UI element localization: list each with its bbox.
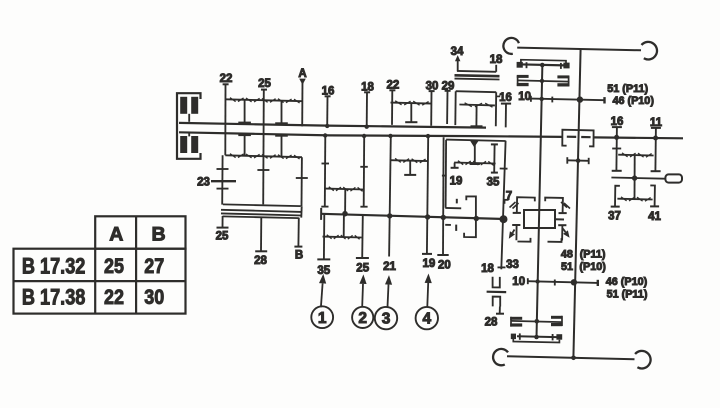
T-foot right leg G3b [491,172,498,174]
bottom CV right gear stripe 1 [551,316,562,319]
tick toward label 16c [497,95,501,97]
top CV bridge line [521,60,566,64]
T-foot bracket top-right [559,212,567,214]
gear mesh hatch F1 [329,187,334,191]
gear line output bottom [617,198,652,201]
gear 25 long vertical [262,90,265,205]
circled 1 [311,306,333,328]
svg-text:28: 28 [485,317,498,329]
output coupling housing [562,130,593,147]
B-shaft body lower line [221,213,302,215]
gear 11o vertical [654,128,657,171]
T-foot leg B [294,246,302,248]
top CV axle line [517,80,569,81]
T-foot inner leg [451,167,459,169]
gear leg T4 [409,161,411,175]
reverse idler upper U [493,277,500,288]
T-foot label 25 leg [356,257,369,259]
svg-text:25: 25 [356,262,369,274]
bracket G3 left leg [454,91,456,125]
junction 10line2-ringaxis [571,279,577,285]
svg-text:25: 25 [104,255,124,278]
svg-text:22: 22 [387,80,400,92]
junction bottom axle-axis [535,319,540,324]
leg to label 25 left [222,216,224,228]
top drive shaft right fork [642,42,658,60]
tick below 34 [457,58,459,71]
T-foot lower-right hook [650,205,659,207]
countershaft line [321,214,505,219]
gear 21 long vertical [389,136,391,256]
T-foot stub [496,313,504,315]
leader cap 22 [223,83,229,85]
junction axle-axis [540,79,544,83]
T-foot gear 19 vertical [422,253,432,255]
synchro sleeve upper bar [455,74,500,77]
svg-text:19: 19 [423,258,436,270]
B-shaft right end cap [300,206,302,217]
T-foot gear 16o [612,170,622,172]
gear ratio table [14,216,186,313]
bottom drive shaft right fork [635,351,651,369]
top drive shaft line [517,48,641,51]
10-line top [531,99,605,101]
bracket G3 top line [456,91,497,92]
hatch tr-1 [564,203,570,209]
junction 21-countershaft [387,213,392,218]
bottom CV left block edge [510,317,512,327]
arrow 1 [321,283,323,307]
T-foot of leg T1 [238,122,251,124]
gear 30 vertical [430,91,432,125]
leader cap 25 [261,89,267,91]
bracket 34-18 [457,70,496,73]
junction 20-countershaft [441,215,446,220]
svg-text:18: 18 [481,263,494,275]
gear leg T3 [410,103,412,122]
junction ringaxis-bottom shaft [571,356,576,361]
svg-text:41: 41 [648,211,661,223]
gear leg T1 bottom [244,135,246,156]
top CV bar [518,64,565,65]
svg-text:19: 19 [450,176,463,188]
T-foot center leg [470,163,480,165]
gear 16c vertical [505,104,507,128]
hatch tl-2 [513,203,519,209]
final drive pinion mesh dot [500,215,508,223]
bottom CV right gear stripe 2 [551,323,562,326]
svg-text:B: B [295,250,303,262]
input shaft lower line [179,132,562,137]
T-foot gear 11o [651,170,661,172]
svg-text:51: 51 [561,261,573,273]
input shaft upper line [179,123,486,128]
coupling inner dash left [567,136,576,138]
tick up to 18 [495,65,497,72]
tick at end of pinion leg [498,266,506,268]
clutch hub link upper [188,114,190,122]
node A vertical [301,79,303,126]
svg-text:27: 27 [144,255,164,278]
junction F1 left-shaft [323,133,327,137]
tick start 10-line bottom [527,278,529,284]
T-foot leg T5 [471,125,483,127]
differential axis vertical [537,64,543,338]
svg-text:20: 20 [438,259,451,271]
diff bracket top-right [545,198,563,213]
ring gear axis vertical [573,49,580,358]
synchro rail upper [445,207,461,209]
gear 22 vertical [224,85,226,156]
top CV right square [563,63,569,69]
svg-text:25: 25 [216,231,229,243]
T-cap bracket bottom-right [558,224,566,226]
junction 10line-ringaxis [577,96,583,102]
junction 10line-diffaxis [540,97,544,101]
T-cap of leg T2 bottom [275,135,288,137]
junction 18-shaft [365,125,369,129]
tick on F1 right [360,166,368,168]
bottom CV right tick [552,334,554,340]
svg-text:22: 22 [220,73,233,85]
tick upper on 23 vertical [217,168,229,170]
svg-text:10: 10 [518,91,531,103]
hub left leg down [445,140,448,208]
T-foot leg 25 left [217,227,229,229]
junction 16-shaft [325,124,329,128]
gear 16 vertical [326,97,328,127]
clutch plate lower-right [191,136,198,153]
svg-text:(P11): (P11) [580,248,606,260]
arrow 3 [388,285,389,307]
top CV right gear stripe 1 [557,75,569,78]
synchro dog triangle [471,140,478,146]
T-foot bracket top-left [513,212,521,214]
gear line F1 below [323,236,362,239]
bottom CV axle line [511,321,563,322]
bottom CV right square [556,334,562,340]
hub line below shaft [446,140,506,141]
center leg F1 below [343,214,345,237]
bottom CV right block edge [561,316,563,326]
tick below label 7 [505,200,509,204]
wedge under label A [300,79,305,83]
junction CV bar-axis [540,63,545,68]
leg to label B [297,218,299,247]
gear leg T5 [475,105,477,126]
jaw tooth upper [456,199,458,204]
countershaft left end cap [320,208,322,220]
gear mesh hatch F1 below [327,235,332,239]
circled 3 [375,307,397,329]
mid tick 10-line top [551,97,553,103]
hatch tr-2 [561,202,567,208]
output mid line [611,178,664,179]
svg-text:30: 30 [426,80,439,92]
synchro sleeve lower bar [455,78,500,81]
gear leg right down to B-shaft [301,157,303,206]
bearing right tick [588,158,590,164]
gear 16o vertical [615,127,618,170]
tick left of label 19 [442,175,447,177]
top CV left square [517,62,523,68]
gear leg T2 top [281,101,283,124]
T-cap of leg T1 bottom [238,134,251,136]
stub below reverse idler [499,307,501,314]
bottom CV bar [517,335,557,338]
leader cap 22b [389,89,395,91]
svg-text:46 (P10): 46 (P10) [613,95,655,107]
gear line F1 [325,188,364,191]
hatch tl-1 [510,202,516,208]
junction synchro-countershaft [474,216,479,221]
svg-text:23: 23 [197,177,210,189]
tick gear 16o [612,148,621,150]
gear 18 vertical [366,93,368,128]
10-line bottom [528,281,598,283]
gear line G2 top [391,103,432,104]
bracket G3 right leg [495,92,497,126]
leader cap 29 [445,90,451,92]
output lower-right hook [650,185,655,206]
clutch housing bracket [177,93,201,159]
svg-text:(P10): (P10) [579,261,606,273]
top CV right gear stripe 2 [557,83,569,86]
svg-text:4: 4 [422,311,431,328]
gear 19 long vertical [427,136,428,254]
junction 16o-shaft [614,135,619,140]
clutch plate lower-left [180,136,187,153]
junction 11o-shaft [653,136,658,141]
svg-text:37: 37 [608,211,621,223]
clutch plate upper-left [180,97,187,114]
speedometer drive box [665,174,682,182]
diff bracket bottom-right leg [561,225,563,240]
output center leg [634,155,636,199]
svg-text:16: 16 [499,92,512,104]
bottom drive shaft left fork [493,349,508,365]
T-foot leg 28 left [255,250,267,252]
B-shaft lower bracket line [223,216,299,218]
svg-text:35: 35 [487,177,500,189]
top CV right tick [560,63,562,69]
gear line output top [618,154,653,157]
svg-text:48: 48 [561,248,573,260]
bottom CV left square [511,334,516,340]
jaw tooth lower [455,225,457,231]
arrowhead up to 34 [456,57,460,61]
gear line G3 bottom [454,163,496,164]
tick on F1 left [322,163,330,165]
gear mesh hatch G2 bottom [395,158,401,162]
svg-text:18: 18 [361,82,374,94]
bottom CV left gear stripe 2 [510,323,522,326]
gear leg T2 bottom [281,135,283,156]
synchro big C jaw [464,196,476,237]
diff bracket bottom-left foot [518,238,531,242]
svg-text:B 17.32: B 17.32 [22,254,86,279]
mid tick 10-line bottom [554,280,556,286]
junction bearing-ringaxis [576,158,581,163]
tick start 10-line top [530,96,532,102]
svg-text:A: A [298,68,306,80]
T-foot label 35 leg [317,258,330,260]
clutch plate upper-right [191,97,198,114]
gear 35 upper vertical [324,136,327,207]
bottom drive shaft line [507,356,635,359]
top CV left gear stripe 2 [517,83,529,86]
svg-text:10: 10 [512,276,525,288]
center leg G3b [474,143,476,164]
circled 4 [416,307,438,329]
clutch hub link lower [188,133,190,136]
synchro rail lower [445,224,451,226]
svg-text:1: 1 [318,310,327,327]
gear mesh hatch G2 top [395,101,401,105]
gear 23 vertical [221,155,223,204]
svg-text:25: 25 [258,78,271,90]
gear line G3 [459,104,495,107]
23 shaft dash [211,180,236,182]
gear mesh hatch G1 top [230,98,236,102]
T-cap gear 16o [612,126,622,128]
junction 19-shaft [426,134,430,138]
T-foot lower-left hook [611,206,620,208]
end tick 10-line top [603,97,605,103]
bearing bar below coupling [567,159,588,162]
gear mesh hatch G3 bottom [458,161,463,165]
svg-text:35: 35 [317,265,330,277]
inner left leg G3b [454,163,456,168]
gear 20 vertical [442,137,445,255]
junction F1-countershaft [342,211,348,217]
gear mesh hatch G1 bottom [230,154,236,158]
bearing left tick [566,157,568,164]
gear mesh hatch output top [622,153,628,157]
svg-text:21: 21 [383,261,396,273]
svg-text:B 17.38: B 17.38 [22,285,86,310]
svg-text:B: B [152,224,166,246]
top drive shaft left fork [503,38,519,54]
junction 19-countershaft [425,214,430,219]
diff bracket bottom-left leg [515,225,517,240]
leader cap 16 [325,95,331,97]
junction F1 right-shaft [362,134,366,138]
svg-text:22: 22 [104,286,124,309]
T-foot of leg T2 [275,122,288,124]
T-cap right leg G3b [491,143,498,145]
svg-text:16: 16 [322,86,335,98]
leader cap 30 [429,90,435,92]
B-shaft body upper line [221,210,302,212]
junction 21-shaft [388,134,392,138]
arrow 4 [426,283,429,307]
top CV left block edge [517,75,519,86]
svg-text:A: A [109,223,123,245]
leader cap 18 [364,91,370,93]
top CV right block edge [568,76,570,86]
leg to label 35 bottom [323,214,325,259]
leg to label 25 bottom [361,215,364,258]
gear mesh hatch G3 [465,103,472,107]
T-cap gear 16c [501,103,511,105]
T-cap bracket bottom-left [512,224,520,226]
final drive ring gear box [524,210,555,228]
junction 10line2-diffaxis [535,279,539,283]
junction midline-centerleg [632,175,637,180]
svg-text:2: 2 [358,310,367,327]
bevel arrow bottom-right [563,229,566,233]
arrow 2 [361,284,364,307]
svg-text:28: 28 [254,255,267,267]
right leg G3b [493,145,495,173]
end bar F1 right [360,206,367,208]
output shaft line right of coupling [594,136,683,139]
tick lower on 23 vertical [217,188,229,190]
T-foot gear 20 [437,254,448,256]
end tick 10-line bottom [597,280,599,286]
diff bracket bottom-right foot [548,238,562,242]
reverse idler shaft dash [487,291,507,294]
leg to label 28 left [260,217,262,251]
svg-text:33: 33 [506,259,519,271]
svg-text:51 (P11): 51 (P11) [607,83,648,95]
output lower-left hook [615,186,620,207]
pinion leg long vertical [501,141,505,270]
coupling inner dash right [581,136,590,138]
pinion stub right of box [555,218,564,220]
gear leg T1 top [244,100,246,123]
svg-text:18: 18 [490,54,503,66]
reverse idler lower U [493,297,501,307]
svg-text:46 (P10): 46 (P10) [606,276,648,288]
bottom CV left gear stripe 1 [510,317,522,320]
T-cap gear 11o [651,127,661,129]
top CV left gear stripe 1 [517,75,529,78]
bottom CV left tick [519,333,521,339]
tick on pinion leg [500,168,508,170]
tick on 25 vertical [257,169,269,171]
gear 25 upper vertical [363,136,366,207]
center leg F1 [344,189,346,213]
gear line G2 bottom [391,159,428,162]
gear line G1 bottom [225,155,302,157]
svg-text:29: 29 [442,80,455,92]
gear 29 vertical [446,91,448,124]
top CV left tick [526,62,528,68]
T-foot leg T4 [404,174,416,176]
gear mesh hatch output bottom [621,197,627,201]
gear line G1 top [226,99,303,101]
tick on right leg [296,177,308,179]
bevel arrow bottom-left [513,230,515,233]
circled 2 [352,307,373,328]
B-shaft upper bracket line [223,204,301,206]
diff bracket top-left [517,197,535,213]
svg-text:51 (P11): 51 (P11) [607,288,648,300]
T-foot leg T3 [405,121,417,123]
svg-text:3: 3 [382,311,391,328]
svg-text:30: 30 [144,286,164,309]
bottom CV bridge line [513,339,559,343]
gear 22b vertical [391,91,393,125]
junction bottom bar-axis [534,335,539,340]
end bar F1 left [321,206,328,208]
